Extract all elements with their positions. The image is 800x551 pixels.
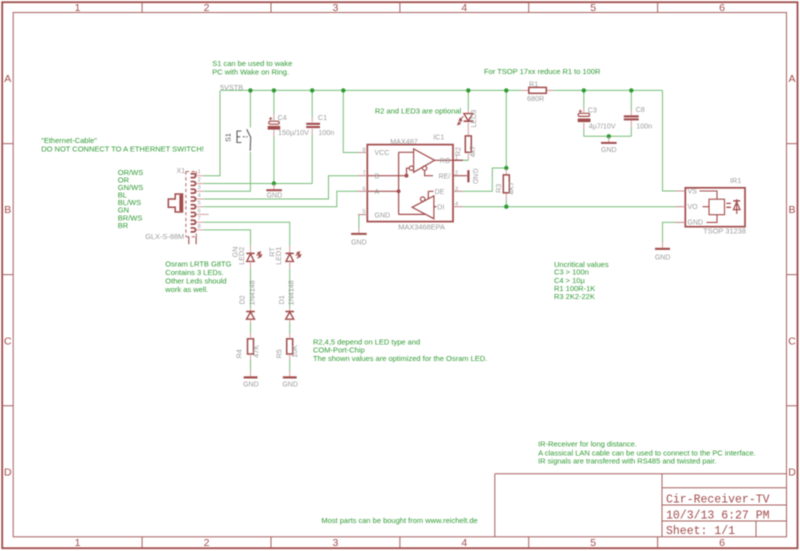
svg-text:C1: C1 (318, 113, 327, 122)
frame column labels bottom (75, 537, 726, 549)
frame row labels right (788, 73, 796, 479)
node GND net C4 (272, 181, 276, 185)
wire X1 pin2 GND net (204, 183, 313, 185)
svg-text:3: 3 (332, 537, 338, 549)
connector X1 contact hooks (191, 174, 196, 232)
svg-text:5: 5 (590, 2, 596, 14)
svg-text:DI: DI (437, 204, 444, 211)
svg-text:The shown values are optimized: The shown values are optimized for the O… (313, 354, 487, 363)
IC pin names (375, 150, 451, 219)
LED LED2 (246, 246, 254, 269)
resistor R1 (522, 89, 554, 91)
svg-text:680R: 680R (527, 94, 544, 103)
svg-text:10K: 10K (290, 345, 299, 358)
IR1 pin stubs (676, 191, 686, 222)
svg-text:BR: BR (118, 221, 129, 230)
svg-text:D: D (4, 467, 12, 479)
switch S1 (237, 129, 251, 151)
svg-text:VO: VO (688, 204, 699, 211)
svg-text:GND: GND (655, 255, 671, 262)
svg-text:100n: 100n (636, 121, 652, 130)
node rail LED3 (466, 88, 470, 92)
wire C8 top (630, 90, 632, 110)
svg-text:R3: R3 (494, 184, 503, 193)
svg-text:IR1: IR1 (730, 176, 741, 185)
svg-text:5: 5 (198, 201, 201, 207)
NOTES (green) (41, 59, 756, 525)
ground symbol under IC1 (358, 228, 360, 233)
svg-text:GLX-S-88M: GLX-S-88M (145, 232, 184, 241)
svg-text:5: 5 (590, 537, 596, 549)
resistor R4 (248, 339, 254, 354)
svg-text:B: B (788, 204, 795, 216)
svg-text:VCC: VCC (375, 150, 390, 157)
svg-text:1: 1 (198, 170, 201, 176)
capacitor C3 (578, 108, 591, 130)
svg-text:IR signals are transfered with: IR signals are transfered with RS485 and… (538, 457, 716, 466)
connector X1 jack silhouette (168, 194, 182, 212)
LED2 emission arrows (257, 252, 262, 258)
wire rail to S1 top (249, 90, 251, 127)
svg-text:R3 2K2-22K: R3 2K2-22K (554, 292, 595, 301)
svg-text:2: 2 (204, 537, 210, 549)
svg-text:1: 1 (75, 537, 81, 549)
svg-text:1: 1 (455, 155, 458, 161)
wire D1 to R5 (289, 323, 291, 334)
svg-text:GND: GND (243, 381, 259, 388)
LED1 emission arrows (296, 252, 301, 258)
svg-text:TSOP 31238: TSOP 31238 (703, 227, 746, 236)
node DE R3 (504, 166, 508, 170)
svg-text:6: 6 (362, 186, 365, 192)
svg-text:LED1: LED1 (274, 247, 283, 265)
ground symbol under R4 (250, 370, 252, 376)
wire LED2 to D2 (250, 269, 252, 308)
wire IR1 GND to ground (663, 222, 676, 242)
wire rail to IC VCC (343, 90, 358, 152)
svg-text:C: C (4, 336, 12, 348)
svg-text:A: A (375, 189, 380, 196)
svg-text:GND: GND (351, 240, 367, 247)
node rail C1 (310, 88, 314, 92)
svg-text:IC1: IC1 (433, 133, 444, 142)
wire 5VSTB rail right (553, 89, 662, 91)
svg-text:C3: C3 (588, 105, 597, 114)
wire X1 pin7 to LED1 (204, 222, 290, 246)
svg-text:GND: GND (688, 220, 704, 227)
svg-text:LED2: LED2 (237, 247, 246, 265)
frame column labels top (75, 2, 726, 14)
svg-text:S1: S1 (224, 133, 233, 142)
wire rail to IR1 VS (663, 90, 676, 191)
svg-text:1N4148: 1N4148 (247, 280, 256, 305)
connector X1 mounting pins (189, 237, 196, 245)
svg-text:C8: C8 (636, 105, 645, 114)
svg-text:RE/: RE/ (439, 173, 451, 180)
svg-text:4: 4 (461, 537, 467, 549)
diode D2 (246, 308, 255, 323)
IC internal receiver triangle (367, 149, 453, 215)
wire X1 pin8 to LED2 (204, 230, 251, 246)
svg-text:GND: GND (471, 168, 478, 184)
svg-text:work as well.: work as well. (164, 285, 208, 294)
svg-text:4K7: 4K7 (507, 182, 516, 195)
wire C4 top (273, 90, 275, 114)
frame row dividers right (787, 144, 798, 406)
IC internal junction dots (405, 174, 409, 178)
ground symbol under IR1 (662, 242, 664, 248)
IR1 internal square and links (700, 191, 731, 222)
diode D1 (285, 308, 294, 323)
IC pin numbers (362, 147, 458, 215)
svg-text:7: 7 (362, 171, 365, 177)
capacitor C4 (268, 114, 281, 137)
svg-text:6: 6 (198, 208, 201, 214)
title block outline (495, 474, 787, 537)
svg-text:4: 4 (198, 193, 201, 199)
wire 5VSTB rail left (221, 89, 522, 91)
svg-text:8: 8 (362, 147, 365, 153)
node rail R3 (504, 88, 508, 92)
svg-text:PC with Wake on Ring.: PC with Wake on Ring. (212, 68, 289, 77)
svg-text:5VSTB: 5VSTB (220, 83, 243, 92)
svg-text:47K: 47K (251, 345, 260, 358)
svg-text:5: 5 (362, 209, 365, 215)
wire R3 bottom to DI net (505, 200, 507, 207)
connector X1 dashed outline (186, 172, 196, 237)
svg-text:4k7: 4k7 (468, 146, 477, 158)
wire IC GND pin to ground (357, 215, 360, 229)
svg-text:C4: C4 (278, 113, 287, 122)
svg-text:R4: R4 (235, 349, 244, 358)
svg-text:Cir-Receiver-TV: Cir-Receiver-TV (666, 494, 770, 507)
wire X1 pin4 to IC B (204, 176, 358, 199)
capacitor C8 (624, 115, 639, 120)
svg-text:4µ7/10V: 4µ7/10V (589, 121, 616, 130)
wire C4 bottom (273, 137, 275, 184)
wire C3 C8 ground net (584, 135, 632, 137)
svg-text:Sheet: 1/1: Sheet: 1/1 (666, 525, 735, 538)
IR1 photodiode (733, 199, 740, 214)
svg-text:2: 2 (455, 171, 458, 177)
svg-text:LED3: LED3 (469, 110, 478, 128)
LED LED1 (286, 246, 294, 269)
node DI R3 (504, 205, 508, 209)
ground symbol under C3 C8 (608, 137, 610, 142)
connector X1 pin numbers (198, 170, 201, 230)
svg-text:100n: 100n (318, 128, 334, 137)
node C3 C8 gnd (607, 134, 611, 138)
svg-text:C: C (788, 336, 796, 348)
svg-text:2: 2 (198, 178, 201, 184)
svg-text:IR-Receiver for long distance.: IR-Receiver for long distance. (538, 439, 637, 448)
node rail VCC (341, 88, 345, 92)
IC pin stubs (358, 153, 467, 215)
frame row dividers left (2, 144, 13, 406)
resistor R3 (503, 175, 509, 193)
wire C1 bottom (311, 135, 313, 184)
svg-text:GND: GND (267, 193, 283, 200)
wire IC DE to R3 node (463, 168, 507, 191)
svg-text:1N4148: 1N4148 (287, 280, 296, 305)
IC op U1 MAX487 box (367, 145, 453, 222)
wire rail to R3 node (505, 90, 507, 169)
wire IC DI to IR1 VO (463, 206, 676, 208)
svg-text:6: 6 (719, 2, 725, 14)
svg-text:GND: GND (601, 147, 617, 154)
svg-text:D: D (788, 467, 796, 479)
svg-text:GND: GND (282, 381, 298, 388)
svg-text:D2: D2 (238, 295, 247, 304)
svg-text:D1: D1 (277, 295, 286, 304)
svg-text:RO: RO (440, 158, 451, 165)
svg-text:A: A (4, 73, 11, 85)
capacitor C1 (306, 123, 320, 128)
wire C3 top (583, 90, 585, 107)
resistor R3 leads (505, 169, 507, 200)
svg-text:3: 3 (455, 186, 458, 192)
LED3 emission arrows (458, 116, 464, 124)
wire X1 pin5 to IC A (204, 191, 358, 206)
connector X1 pin leads (197, 176, 209, 230)
svg-text:10/3/13 6:27 PM: 10/3/13 6:27 PM (666, 510, 770, 523)
svg-text:B: B (4, 204, 11, 216)
frame row labels left (4, 73, 12, 479)
wire D2 to R4 (250, 323, 252, 334)
svg-text:R1: R1 (529, 80, 538, 89)
svg-text:8: 8 (198, 224, 201, 230)
ground symbol RE/ (rotated) (467, 170, 469, 182)
svg-text:MAX487: MAX487 (390, 137, 418, 146)
svg-text:DE: DE (435, 189, 445, 196)
svg-text:7: 7 (198, 216, 201, 222)
svg-text:GND: GND (375, 212, 391, 219)
svg-text:3: 3 (332, 2, 338, 14)
node rail C4 (272, 88, 276, 92)
wire R5 to ground (289, 360, 291, 370)
WIRES (green) (204, 90, 676, 370)
wire R4 to ground (250, 360, 252, 370)
svg-text:3: 3 (198, 185, 201, 191)
svg-text:4: 4 (461, 2, 467, 14)
svg-text:X1: X1 (177, 166, 186, 175)
svg-text:6: 6 (719, 537, 725, 549)
LED LED3 (464, 110, 473, 136)
svg-text:R2 and LED3 are optional: R2 and LED3 are optional (375, 107, 462, 116)
svg-text:1: 1 (75, 2, 81, 14)
wire rail to LED3 (467, 90, 469, 109)
node rail C3 (582, 88, 586, 92)
node rail S1 (248, 88, 252, 92)
wire C1 top (311, 90, 313, 117)
svg-text:DO NOT CONNECT TO A ETHERNET S: DO NOT CONNECT TO A ETHERNET SWITCH! (41, 144, 204, 153)
svg-text:Most parts can be bought from: Most parts can be bought from www.reiche… (321, 516, 477, 525)
frame column dividers bottom (142, 537, 658, 548)
ground symbol under R5 (289, 370, 291, 376)
node rail C8 (629, 88, 633, 92)
svg-text:VS: VS (688, 188, 698, 195)
resistor R5 (287, 339, 293, 354)
svg-text:MAX3468EPA: MAX3468EPA (398, 223, 445, 232)
svg-text:4: 4 (455, 202, 458, 208)
IR1 pin names (688, 188, 704, 226)
wire R2 to IC RO (467, 152, 469, 160)
frame column dividers top (142, 2, 658, 12)
wire rail to X1 pin1 (204, 90, 220, 175)
junction dots (248, 88, 633, 209)
svg-text:For TSOP 17xx reduce R1 to 100: For TSOP 17xx reduce R1 to 100R (484, 67, 601, 76)
wire C3 bottom (583, 129, 585, 136)
wire C8 bottom (630, 127, 632, 136)
resistor R2 (465, 136, 471, 152)
svg-text:B: B (375, 173, 380, 180)
svg-text:150µ/10V: 150µ/10V (278, 128, 309, 137)
svg-text:A: A (788, 73, 795, 85)
svg-text:R5: R5 (274, 349, 283, 358)
svg-text:2: 2 (204, 2, 210, 14)
svg-text:COM-Port-Chip: COM-Port-Chip (313, 345, 365, 354)
IC internal driver triangle (412, 191, 436, 218)
IR receiver IR1 box (685, 188, 745, 227)
wire LED1 to D1 (289, 269, 291, 308)
wire S1 bottom to X1 pin3 (204, 152, 251, 191)
ground symbol under C4 (273, 184, 275, 189)
